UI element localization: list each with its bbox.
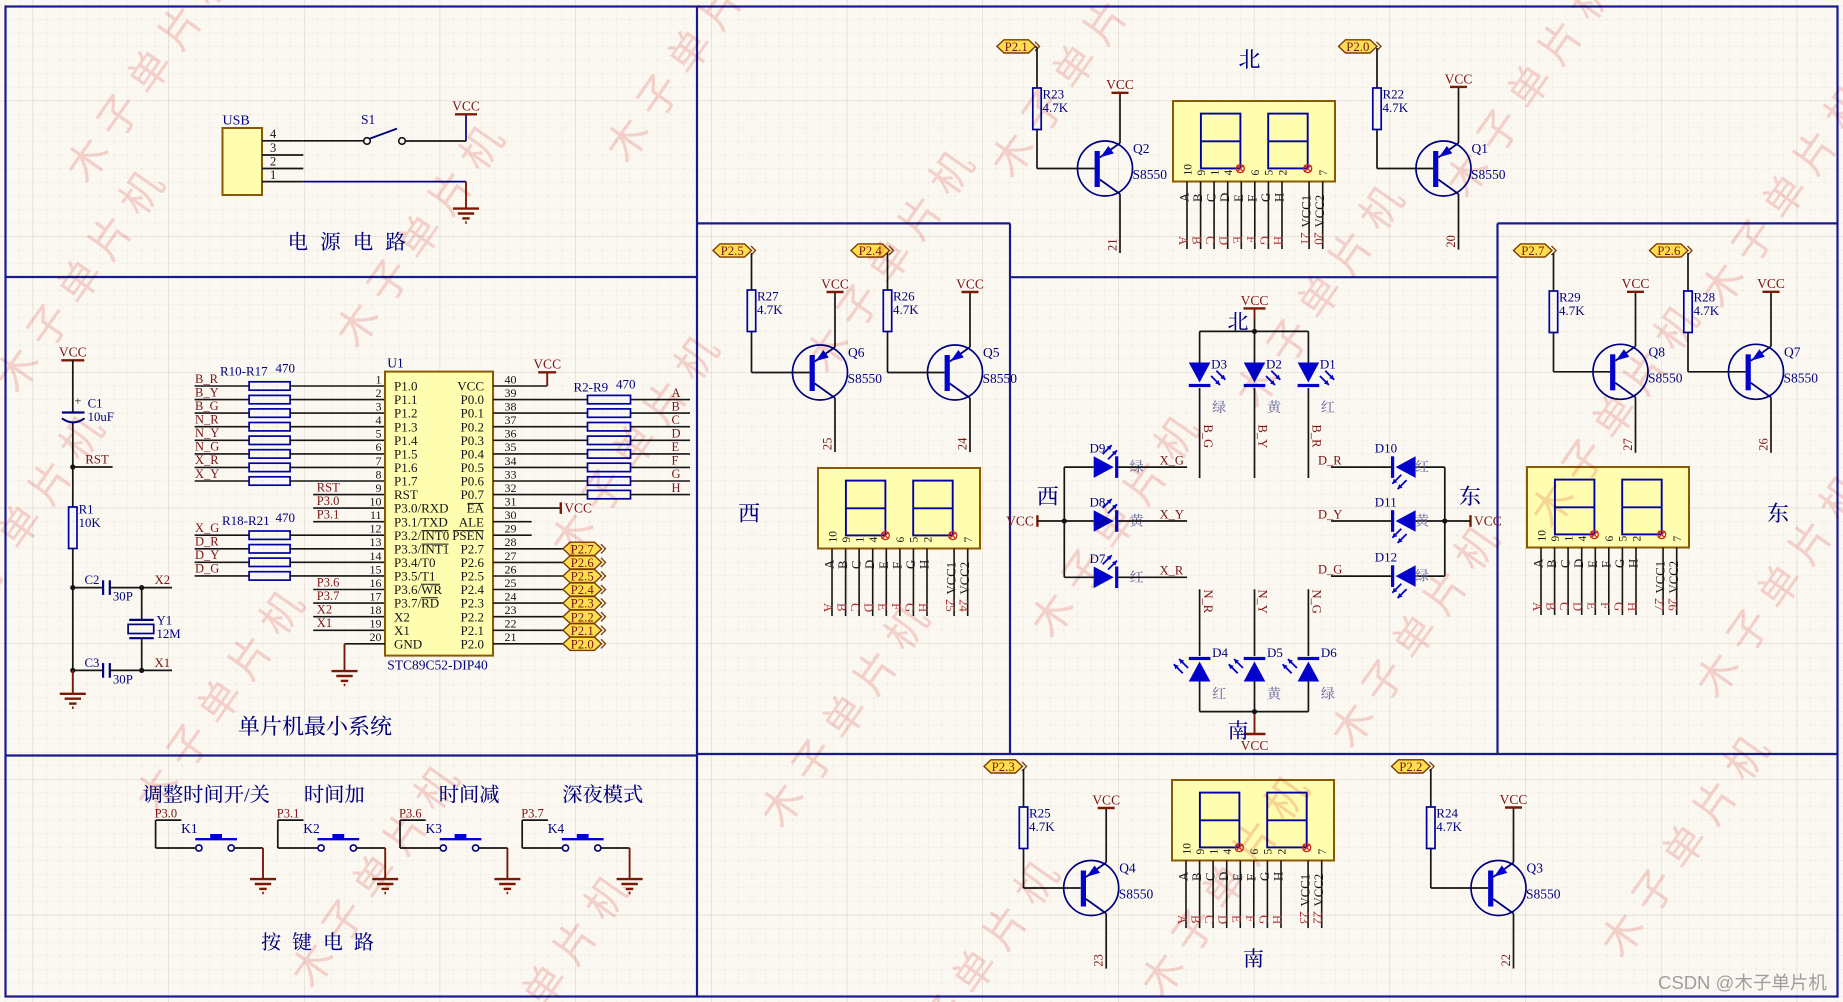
svg-text:25: 25 (821, 438, 835, 451)
svg-text:470: 470 (276, 361, 296, 376)
svg-text:D_Y: D_Y (195, 548, 219, 562)
svg-text:23: 23 (1297, 911, 1311, 924)
resistor R20 net D_Y (195, 548, 385, 566)
transistor Q1 (1416, 141, 1471, 196)
svg-text:9: 9 (841, 537, 853, 543)
svg-text:C: C (1205, 193, 1219, 202)
wire (1416, 520, 1445, 522)
node X1 (139, 656, 172, 673)
node north junction (1200, 329, 1309, 334)
wire net X_R (1118, 564, 1187, 578)
svg-text:28: 28 (505, 535, 517, 549)
svg-text:1: 1 (376, 372, 382, 386)
svg-text:33: 33 (505, 467, 517, 481)
svg-text:R10-R17: R10-R17 (220, 364, 268, 379)
wire (1105, 808, 1107, 863)
svg-text:N_G: N_G (195, 440, 219, 454)
wire net N_G (1308, 589, 1323, 656)
svg-text:21: 21 (505, 630, 517, 644)
ground (453, 209, 479, 223)
svg-text:4: 4 (868, 537, 880, 543)
wires east pins (1541, 548, 1677, 616)
port P2.5 (493, 569, 606, 583)
port P2.6 (1650, 244, 1693, 258)
svg-text:4: 4 (376, 413, 382, 427)
wire (1688, 333, 1746, 372)
svg-text:STC89C52-DIP40: STC89C52-DIP40 (387, 658, 488, 673)
ground (372, 879, 398, 893)
wire (1513, 808, 1515, 863)
port P2.1 (493, 624, 606, 638)
svg-text:P2.5: P2.5 (721, 244, 744, 258)
svg-text:37: 37 (505, 413, 517, 427)
wire (1770, 397, 1772, 453)
wire (72, 467, 74, 507)
svg-text:Q5: Q5 (983, 345, 1000, 360)
svg-text:P2.0: P2.0 (1346, 40, 1369, 54)
svg-text:西: 西 (738, 497, 760, 528)
svg-text:S8550: S8550 (1526, 887, 1561, 902)
svg-text:12: 12 (370, 522, 382, 536)
svg-text:P2.3: P2.3 (992, 760, 1015, 774)
svg-text:25: 25 (505, 576, 517, 590)
svg-text:H: H (1273, 193, 1287, 202)
svg-text:红: 红 (1212, 684, 1226, 704)
svg-text:B: B (835, 603, 849, 612)
svg-text:C: C (848, 603, 862, 612)
wire (1254, 712, 1256, 734)
svg-text:绿: 绿 (1212, 397, 1226, 417)
resistor R18 net X_G (195, 521, 385, 539)
label 时间加 (304, 779, 365, 808)
pin labels east (1532, 558, 1682, 594)
svg-text:G: G (1257, 236, 1271, 245)
svg-text:34: 34 (505, 454, 517, 468)
svg-text:K2: K2 (303, 821, 320, 836)
resistor R28 4.7K (1684, 290, 1720, 333)
svg-text:22: 22 (1311, 911, 1325, 924)
svg-text:38: 38 (505, 400, 517, 414)
wire (751, 253, 753, 290)
svg-text:4.7K: 4.7K (1559, 303, 1585, 318)
power VCC west (1006, 514, 1037, 529)
wires west pins (832, 549, 968, 617)
wire (834, 292, 836, 347)
svg-text:F: F (1598, 602, 1612, 609)
svg-text:红: 红 (1321, 397, 1335, 417)
svg-text:G: G (904, 560, 918, 569)
capacitor C2 (73, 573, 142, 604)
svg-text:D12: D12 (1375, 550, 1397, 565)
wire (1376, 48, 1378, 88)
center box border (1010, 276, 1498, 278)
wire (1199, 331, 1201, 362)
svg-text:Q3: Q3 (1527, 861, 1544, 876)
svg-text:1: 1 (854, 537, 866, 543)
svg-text:35: 35 (505, 440, 517, 454)
svg-text:A: A (1178, 192, 1192, 202)
title power circuit (288, 225, 410, 255)
wire (1254, 331, 1256, 362)
svg-text:红: 红 (1415, 457, 1429, 477)
wire net B_G (1200, 388, 1215, 478)
port P2.0 (493, 637, 606, 651)
svg-text:26: 26 (505, 562, 517, 576)
svg-text:D_R: D_R (1318, 454, 1342, 468)
net P3.1 wire (313, 508, 385, 522)
svg-text:30P: 30P (113, 672, 133, 686)
svg-text:D9: D9 (1090, 441, 1106, 456)
pin numbers east (1536, 530, 1684, 542)
svg-text:23: 23 (1092, 954, 1106, 967)
svg-text:6: 6 (376, 440, 382, 454)
power VCC (452, 99, 480, 115)
svg-text:10: 10 (1182, 164, 1194, 176)
svg-text:4.7K: 4.7K (893, 302, 919, 317)
svg-text:C: C (1557, 602, 1571, 611)
port P2.1 (997, 40, 1040, 54)
svg-text:21: 21 (1298, 232, 1312, 245)
resistor R17 net X_Y (195, 467, 385, 485)
pin 1 USB (262, 168, 303, 182)
port P2.4 (493, 583, 606, 597)
net P3.1 (277, 807, 304, 821)
svg-text:4.7K: 4.7K (1029, 819, 1055, 834)
wire net D_G (1318, 563, 1391, 577)
svg-text:单片机最小系统: 单片机最小系统 (238, 710, 392, 741)
wires south pins (1186, 861, 1322, 929)
port P2.2 (1392, 760, 1435, 774)
port P2.0 (1339, 40, 1382, 54)
resistor R12 net B_G (195, 399, 385, 417)
wire (752, 332, 810, 373)
resistor R14 net N_Y (195, 426, 385, 444)
wire (493, 385, 547, 387)
label South center (1228, 715, 1249, 745)
svg-text:P2.2: P2.2 (571, 610, 594, 624)
wire net X_Y (1118, 507, 1187, 521)
resistor R9 net H (493, 481, 690, 499)
svg-text:R2-R9: R2-R9 (574, 380, 609, 395)
svg-text:P3.1: P3.1 (317, 508, 340, 522)
wire (1036, 46, 1038, 88)
wire (303, 140, 364, 142)
svg-text:7: 7 (1318, 170, 1330, 176)
svg-text:30P: 30P (113, 590, 133, 604)
svg-text:F: F (1599, 561, 1613, 568)
svg-text:VCC2: VCC2 (1312, 874, 1326, 907)
svg-text:K4: K4 (548, 821, 565, 836)
svg-text:25: 25 (943, 599, 957, 612)
net P3.6 wire (313, 575, 385, 589)
svg-text:13: 13 (370, 535, 382, 549)
resistor R8 net G (493, 467, 690, 485)
svg-text:USB: USB (223, 114, 250, 129)
svg-text:P3.1: P3.1 (277, 807, 300, 821)
wire east bus (1444, 467, 1446, 576)
svg-text:D: D (1217, 236, 1231, 245)
svg-text:B: B (1191, 193, 1205, 202)
pin names U1 right (452, 379, 484, 652)
svg-text:10: 10 (1536, 530, 1548, 542)
svg-text:VCC: VCC (1757, 276, 1785, 291)
svg-text:G: G (1613, 559, 1627, 568)
transistor Q6 (793, 345, 848, 400)
svg-text:9: 9 (376, 481, 382, 495)
power VCC Q3 (1500, 792, 1528, 808)
pin numbers south (1181, 843, 1329, 855)
node X2 (139, 573, 172, 590)
svg-text:23: 23 (505, 603, 517, 617)
pin 30 ALE stub (493, 521, 532, 523)
svg-text:VCC: VCC (956, 276, 984, 291)
switch K4 (548, 821, 604, 851)
resistor R4 net C (493, 413, 690, 431)
svg-text:GND: GND (394, 636, 422, 651)
svg-text:VCC: VCC (1445, 71, 1473, 86)
wire (1105, 914, 1107, 969)
svg-text:11: 11 (370, 508, 382, 522)
svg-text:F: F (672, 454, 679, 468)
net P3.0 (155, 807, 182, 821)
wire (1119, 93, 1121, 143)
svg-text:10: 10 (827, 531, 839, 543)
wire (888, 332, 945, 373)
svg-text:R1: R1 (79, 503, 94, 517)
svg-text:X_R: X_R (1160, 564, 1184, 578)
no-ERC markers west (881, 532, 956, 540)
wire (1254, 308, 1256, 331)
svg-text:1: 1 (1209, 170, 1221, 176)
wire (465, 182, 467, 209)
svg-text:N_Y: N_Y (1256, 590, 1270, 614)
node RST (70, 453, 112, 470)
capacitor C1 (62, 394, 114, 425)
resistor R11 net B_Y (195, 385, 385, 403)
power VCC Q2 (1106, 77, 1134, 93)
wire (1458, 87, 1460, 143)
svg-text:D_G: D_G (1318, 563, 1342, 577)
svg-text:VCC1: VCC1 (1299, 874, 1313, 907)
svg-text:2: 2 (1631, 536, 1643, 542)
svg-text:A: A (1530, 602, 1544, 612)
svg-text:C: C (1559, 559, 1573, 568)
wire (70, 549, 75, 591)
svg-text:X_Y: X_Y (195, 467, 219, 481)
net labels north (1176, 232, 1326, 246)
svg-text:D1: D1 (1320, 357, 1336, 372)
pin number 25 (821, 438, 835, 451)
ground (60, 694, 86, 708)
wire (1037, 518, 1067, 523)
net labels east (1530, 598, 1680, 612)
LED D5 黄 (1229, 645, 1283, 704)
svg-text:S1: S1 (361, 112, 375, 127)
svg-text:X2: X2 (155, 573, 171, 587)
wire (72, 670, 74, 693)
svg-text:黄: 黄 (1415, 511, 1429, 531)
svg-text:9: 9 (1196, 170, 1208, 176)
svg-text:5: 5 (376, 427, 382, 441)
svg-text:P2.2: P2.2 (1399, 760, 1422, 774)
ground (617, 879, 643, 893)
wire (70, 588, 75, 673)
svg-text:X_R: X_R (195, 453, 219, 467)
resistor R6 net E (493, 440, 690, 458)
svg-text:C: C (850, 560, 864, 569)
svg-text:E: E (1586, 560, 1600, 568)
pin 29 PSEN stub (493, 534, 532, 536)
label West center (1037, 480, 1059, 511)
svg-text:B_Y: B_Y (1256, 425, 1270, 449)
wire (357, 848, 386, 879)
wire (1199, 682, 1201, 712)
power VCC (59, 345, 87, 361)
pin numbers U1 right (505, 372, 517, 644)
svg-text:D_Y: D_Y (1318, 507, 1342, 521)
ground (250, 879, 276, 893)
section divider vertical (696, 7, 698, 997)
pin numbers west (827, 531, 975, 543)
power VCC Q8 (1622, 276, 1650, 292)
svg-text:P2.3: P2.3 (571, 597, 594, 611)
LED D8 黄 (1090, 495, 1144, 532)
svg-text:VCC: VCC (1092, 792, 1120, 807)
7-segment display north (1173, 101, 1335, 182)
svg-text:2: 2 (1277, 170, 1289, 176)
svg-text:VCC2: VCC2 (1313, 195, 1327, 228)
svg-text:F: F (1244, 236, 1258, 243)
svg-text:40: 40 (505, 372, 517, 386)
svg-text:D11: D11 (1375, 495, 1397, 510)
svg-text:D10: D10 (1375, 441, 1397, 456)
wire (303, 181, 466, 183)
wire (1513, 914, 1515, 969)
wire (1307, 682, 1309, 712)
svg-text:P2.1: P2.1 (1005, 40, 1028, 54)
wire (522, 820, 562, 848)
transistor Q8 (1593, 344, 1648, 399)
svg-text:VCC2: VCC2 (958, 562, 972, 595)
wire (1064, 520, 1093, 522)
svg-text:黄: 黄 (1267, 684, 1281, 704)
svg-text:N_Y: N_Y (195, 426, 219, 440)
svg-text:VCC1: VCC1 (1654, 561, 1668, 594)
pin labels west (823, 559, 973, 595)
svg-text:Q2: Q2 (1133, 141, 1150, 156)
no-ERC markers south (1235, 844, 1310, 852)
resistor R16 net X_R (195, 453, 385, 471)
label North (1238, 43, 1260, 74)
svg-text:29: 29 (505, 522, 517, 536)
no-ERC markers north (1236, 165, 1311, 173)
svg-text:X_G: X_G (195, 521, 219, 535)
svg-text:CSDN @木子单片机: CSDN @木子单片机 (1658, 972, 1827, 993)
pin 3 USB (262, 141, 303, 155)
svg-text:E: E (1232, 194, 1246, 202)
svg-text:14: 14 (370, 549, 382, 563)
svg-text:G: G (1256, 915, 1270, 924)
svg-text:D_G: D_G (195, 562, 219, 576)
wire (969, 292, 971, 347)
svg-text:16: 16 (370, 576, 382, 590)
svg-text:470: 470 (276, 510, 296, 525)
IC U1 STC89C52 (385, 356, 493, 673)
wire (141, 638, 143, 670)
svg-text:6: 6 (895, 537, 907, 543)
svg-text:D: D (1218, 193, 1232, 202)
pin labels south (1177, 871, 1327, 907)
pin number 26 (1757, 438, 1771, 451)
wire (601, 848, 630, 879)
svg-text:P2.7: P2.7 (1521, 244, 1545, 258)
svg-text:H: H (1625, 602, 1639, 611)
svg-text:6: 6 (1604, 536, 1616, 542)
svg-text:21: 21 (1106, 239, 1120, 252)
wire (345, 644, 386, 671)
resistor R10 net B_R (195, 372, 385, 390)
power VCC Q1 (1445, 71, 1473, 87)
svg-text:B: B (1545, 559, 1559, 568)
svg-text:D: D (863, 560, 877, 569)
pin number 27 (1621, 438, 1635, 451)
svg-text:C2: C2 (85, 573, 100, 587)
svg-text:470: 470 (616, 377, 636, 392)
svg-text:26: 26 (1757, 438, 1771, 451)
transistor Q5 (928, 345, 983, 400)
section divider left-top (6, 276, 698, 278)
pin 2 USB (262, 155, 303, 169)
section divider right-bottom (697, 753, 1838, 755)
svg-text:RST: RST (317, 480, 340, 494)
net X1 wire (313, 616, 385, 630)
CSDN watermark (1658, 972, 1827, 993)
resistor R21 net D_G (195, 562, 385, 580)
power VCC south (1241, 734, 1269, 753)
7-segment display west (818, 468, 980, 549)
port P2.2 (493, 610, 606, 624)
net P3.0 wire (313, 494, 385, 508)
net P3.7 (521, 807, 548, 821)
svg-text:7: 7 (1317, 849, 1329, 855)
pin number 23 (1092, 954, 1106, 967)
resistor R23 4.7K (1033, 87, 1069, 130)
label East (1767, 497, 1789, 528)
resistor R24 4.7K (1427, 806, 1463, 849)
resistor R25 4.7K (1019, 806, 1055, 849)
label R10-R17 470 (220, 361, 295, 379)
LED D9 绿 (1090, 441, 1144, 478)
power VCC Q6 (821, 276, 849, 292)
wire (1307, 331, 1309, 362)
svg-text:N_G: N_G (1310, 590, 1324, 614)
wire (72, 423, 74, 467)
svg-text:P2.6: P2.6 (1657, 244, 1681, 258)
svg-text:S8550: S8550 (983, 371, 1018, 386)
svg-text:VCC: VCC (1006, 514, 1034, 529)
power VCC Q7 (1757, 276, 1785, 292)
wire (405, 114, 466, 141)
section divider left-bottom (6, 754, 698, 756)
svg-text:30: 30 (505, 508, 517, 522)
wire (1254, 682, 1256, 712)
wire (400, 820, 440, 848)
svg-text:8: 8 (376, 467, 382, 481)
switch K2 (303, 821, 359, 851)
pin number 20 (1444, 235, 1458, 248)
svg-text:G: G (1259, 193, 1273, 202)
svg-text:VCC1: VCC1 (1300, 195, 1314, 228)
